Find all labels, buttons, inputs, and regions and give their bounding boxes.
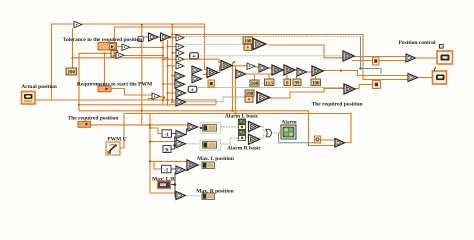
constant 100 mid: [250, 80, 259, 87]
wire PC2 output to indicator: [418, 77, 433, 79]
comparator T3: [116, 52, 124, 59]
wire chain link 4: [293, 69, 297, 71]
wire T4 lower stub: [148, 99, 153, 101]
svg-text:100: 100: [251, 82, 259, 87]
boolean terminal 1: [239, 119, 246, 124]
teal wires: [279, 36, 382, 142]
stack comparator 3: [176, 50, 184, 57]
constant -1 B: [162, 130, 172, 138]
led constant 2: [239, 136, 246, 141]
glyph above indicator 2: [434, 67, 436, 71]
pair comparator lower: [192, 75, 202, 83]
comparator X2: [161, 33, 171, 41]
abs node 2: [188, 86, 197, 92]
wire long line C: [124, 113, 351, 115]
stack comparator 2: [176, 43, 184, 50]
stack comparator 9: [176, 98, 186, 106]
wire chain link 3: [281, 69, 284, 71]
wire M2 output to chain: [231, 65, 247, 67]
comparator T-top: [74, 21, 82, 28]
wire chain link 1: [254, 66, 259, 68]
container box 1: [200, 122, 221, 133]
wire B2 out to strip1: [198, 126, 203, 128]
wire chain link 2: [267, 67, 272, 69]
junction dark dots: [173, 144, 175, 146]
constant 13.5: [265, 79, 275, 86]
actual position terminal: [22, 92, 36, 105]
wire -1C to C1: [171, 168, 176, 170]
svg-text:Tolerance to the required posi: Tolerance to the required position: [63, 37, 142, 43]
wire alarm feed to timer box: [279, 133, 315, 143]
bottom-right comparator: [335, 139, 345, 148]
wire tri1 boolean long: [167, 35, 361, 37]
svg-text:R: R: [165, 148, 169, 153]
required position control left: [78, 121, 91, 127]
svg-text:Alarm R basic: Alarm R basic: [227, 146, 261, 152]
wire bus branch to B3: [150, 141, 176, 143]
wire branch to -1 box C: [154, 161, 161, 169]
wire 200 distribution: [73, 57, 168, 59]
requirements control: [98, 86, 111, 92]
wire bus branch to C2: [150, 160, 187, 162]
wire down right V308: [309, 110, 336, 145]
svg-text:Alarm L basic: Alarm L basic: [225, 114, 259, 120]
comparator M3: [236, 70, 246, 78]
wire pair triangles to M1: [203, 74, 207, 76]
pwm u icon: [106, 142, 120, 155]
wire const 100 stub: [315, 76, 317, 79]
indicator strip 3: [202, 162, 215, 169]
chain node 4: [284, 65, 295, 75]
wire const 100mid stub: [254, 75, 256, 80]
comparator A1: [249, 122, 260, 132]
wire OR to alarm: [273, 132, 281, 134]
wire white node to comparator X1: [143, 36, 149, 38]
comparator C2: [187, 160, 198, 170]
wire const 99 stub: [296, 76, 298, 79]
led constant 1: [239, 125, 246, 130]
svg-text:Requirements to start the PWM: Requirements to start the PWM: [77, 82, 153, 88]
wire tolerance branch to 2-box: [79, 53, 111, 111]
tolerance control: [98, 43, 117, 51]
chain node 2: [259, 64, 269, 72]
comparator B2: [188, 123, 198, 131]
container box 2: [200, 140, 221, 150]
svg-text:100: 100: [312, 81, 320, 86]
wire stack stubs: [163, 38, 176, 102]
wire long line A: [79, 104, 216, 106]
constant 100 right: [311, 79, 321, 86]
small icon box under M1: [208, 80, 215, 87]
constant 99: [293, 79, 301, 86]
chain node 6: [312, 66, 323, 76]
svg-text:Position control: Position control: [398, 40, 435, 46]
comparator B3: [176, 140, 186, 148]
wire M-cluster riser pair: [233, 62, 236, 113]
output comparator PC1: [406, 54, 416, 62]
probe box 1: [373, 57, 380, 65]
wire required position riser mid: [141, 25, 143, 125]
wire M1 to M2: [218, 66, 221, 73]
or gate: [266, 129, 272, 137]
svg-text:Max. R position: Max. R position: [196, 189, 233, 195]
wire C2 out to strip3: [199, 164, 202, 166]
wire B1 output to B2: [185, 129, 188, 135]
wire T4 output: [160, 96, 163, 98]
select node P2: [344, 84, 355, 94]
wire abs1 output to select P1: [198, 55, 343, 57]
wire divide2 output to P2: [269, 89, 344, 99]
comparator B1: [176, 131, 186, 139]
svg-text:13.5: 13.5: [265, 80, 274, 85]
position indicator 1: [437, 51, 453, 64]
wire required-position to comparator B2: [90, 124, 188, 126]
svg-text:Max. L position: Max. L position: [197, 156, 234, 162]
stack comparator 1: [176, 35, 184, 42]
chain node 5: [297, 68, 307, 76]
wire stack tri2 output to divide cluster: [183, 43, 244, 45]
svg-text:The required position: The required position: [68, 116, 119, 122]
constant 100 top: [243, 37, 253, 45]
wire stack tri4 to M2 upper: [184, 59, 221, 62]
constant 0: [284, 79, 291, 86]
comparator T4: [152, 93, 160, 100]
wire const 0 stub: [286, 75, 288, 79]
comparator C1: [176, 166, 186, 174]
max lr control: [158, 181, 171, 189]
wire A1 to OR: [260, 127, 266, 132]
boolean terminal 2: [239, 130, 246, 135]
green boolean thin wires: [167, 36, 361, 195]
wire C1 output to C2: [186, 168, 189, 171]
multiplier M2: [221, 61, 232, 71]
divide node top: [253, 39, 266, 50]
wire -1B to B1: [171, 133, 176, 135]
svg-text:Alarm: Alarm: [281, 120, 297, 126]
chain node 3: [272, 65, 283, 75]
wire P1 output to PC1: [352, 56, 406, 58]
constant -1 C: [162, 165, 172, 173]
comparator A2: [249, 134, 260, 144]
wire strip2 to led4: [215, 138, 239, 144]
wire second line to PC1: [352, 60, 406, 62]
small white node: [138, 36, 143, 41]
wire requirements control riser: [104, 53, 106, 86]
wire comparator T3 output: [124, 55, 163, 57]
svg-text:-1: -1: [165, 132, 170, 138]
position indicator 2: [433, 71, 447, 84]
wire actual-position main horizontal: [35, 100, 216, 105]
constant 200: [66, 68, 77, 76]
wire tolerance control to comparator T2: [117, 46, 122, 48]
comparator T2: [122, 44, 130, 51]
wire chain link 5: [306, 71, 312, 73]
constant 2: [111, 51, 118, 58]
timer box: [315, 136, 321, 143]
svg-text:Actual position: Actual position: [21, 84, 57, 90]
svg-text:PWM U: PWM U: [107, 136, 126, 142]
wire stack vertical V167: [167, 40, 169, 106]
wire requirements control to T4: [110, 89, 152, 96]
wire P2 output to probe2: [354, 85, 373, 89]
wire teal select line: [361, 36, 382, 74]
select node P1: [343, 51, 354, 61]
junction dark dot strip1: [200, 127, 202, 129]
comparator X1: [149, 33, 159, 41]
divide glyph box top: [244, 44, 252, 50]
pair comparator upper: [192, 66, 202, 74]
wire comparator X1 to X2: [156, 36, 161, 38]
wire bus branch to -1 box: [150, 128, 162, 134]
wire tolerance control riser: [115, 27, 205, 43]
comparator C3: [176, 192, 186, 200]
svg-text:The required position: The required position: [312, 102, 363, 108]
svg-text:-1: -1: [164, 167, 169, 173]
wire maxlr control tee: [170, 173, 176, 198]
wire top comparator output to multiplier: [82, 24, 207, 70]
alarm indicator: [280, 125, 297, 139]
wire col to A1 A2: [245, 122, 250, 138]
svg-text:200: 200: [67, 70, 75, 76]
indicator strip 4: [202, 193, 215, 200]
stack comparator 8: [176, 89, 186, 97]
wire constant 200 riser: [72, 29, 74, 69]
wire divide1 output: [268, 45, 343, 58]
wire B3 out to strip2: [186, 143, 203, 145]
chain node 1: [247, 63, 255, 70]
wire stack vertical V163: [162, 38, 164, 104]
wire chain output to PC2: [321, 71, 408, 76]
wire comparator T2 output: [130, 47, 163, 49]
wire left vertical bus: [150, 114, 176, 194]
wire R box riser to B1 B3: [170, 137, 176, 149]
svg-text:99: 99: [295, 81, 301, 86]
wire orange distribution top: [172, 35, 408, 80]
constant 100 bottom: [245, 90, 254, 97]
wire C3 out to strip4: [187, 195, 202, 197]
abs node 1: [190, 53, 199, 59]
wire M3 output: [244, 73, 272, 75]
glyph above indicator 1: [440, 45, 444, 49]
wire stack vertical V171: [171, 25, 173, 103]
constant R box: [163, 146, 171, 154]
wire PC1 output to indicator: [416, 57, 437, 59]
wire pwm-u to bus: [120, 114, 124, 149]
wire long line B: [79, 110, 309, 112]
wire gray feed into divider2: [184, 97, 245, 102]
indicator strip 1: [203, 125, 217, 132]
stack comparator 5: [176, 63, 184, 70]
divide node bottom: [257, 92, 270, 103]
wire const 13.5 stub: [268, 74, 270, 79]
stack comparator 4: [176, 56, 184, 63]
wire bottom tri output riser: [344, 113, 351, 143]
svg-text:Max' L/R: Max' L/R: [152, 177, 176, 183]
multiplier M1: [207, 68, 218, 78]
wire box315 to bottom tri: [320, 139, 335, 141]
stack comparator 6: [175, 72, 185, 80]
stack comparator 7: [175, 80, 185, 88]
wire strip1 to led2: [215, 126, 239, 128]
wire actual-position up-branch to top comparator: [52, 24, 75, 100]
indicator strip 2: [203, 142, 217, 149]
svg-text:100: 100: [244, 40, 252, 45]
wire abs2 output: [198, 87, 344, 89]
wire A2 to OR: [260, 135, 266, 138]
output comparator PC2: [408, 74, 418, 82]
dark integer wires: [170, 129, 188, 198]
divide glyph box bottom: [245, 96, 253, 102]
probe box 2: [373, 81, 381, 89]
